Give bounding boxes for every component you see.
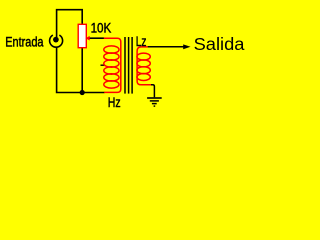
svg-text:Entrada: Entrada [5, 34, 43, 50]
svg-text:Lz: Lz [136, 33, 147, 49]
svg-text:10K: 10K [91, 20, 112, 36]
svg-text:Salida: Salida [194, 34, 245, 54]
svg-text:Hz: Hz [108, 95, 121, 111]
